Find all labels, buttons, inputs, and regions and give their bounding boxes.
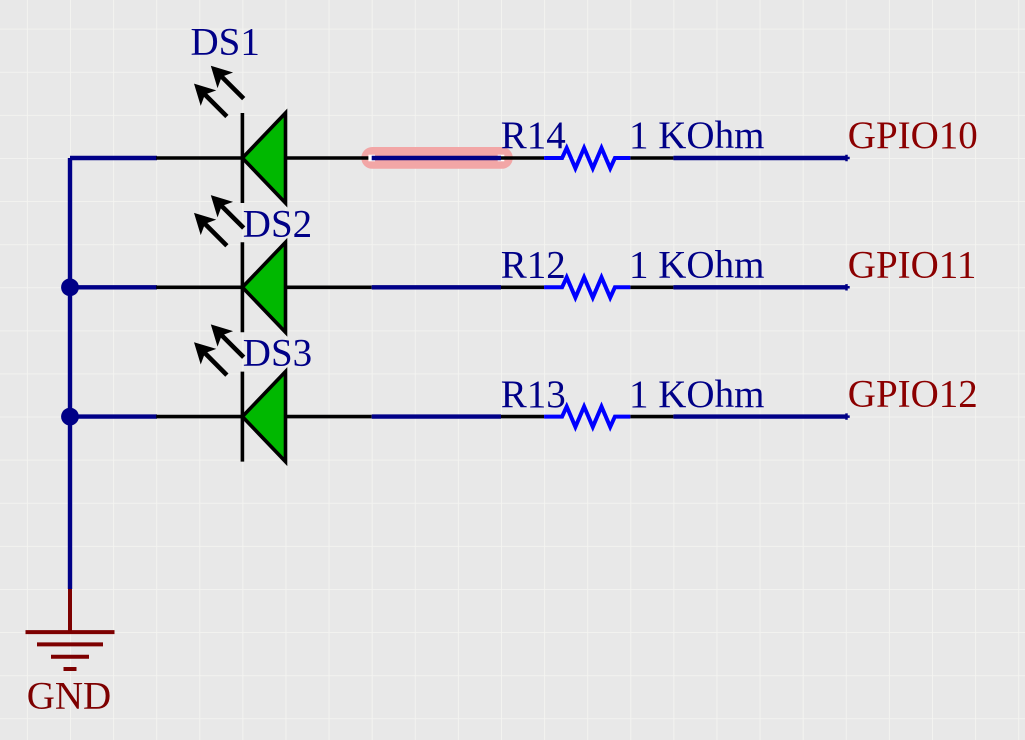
ground symbol [26,589,115,669]
LED DS1 [186,58,285,203]
svg-text:DS1: DS1 [191,21,260,64]
svg-text:1 KOhm: 1 KOhm [629,373,764,416]
resistor R13 [544,407,630,427]
highlighted selected wire glow (row 1) [361,147,513,169]
wire: row2 bus to DS2 [70,285,157,289]
resistor R14 [544,148,630,168]
resistor R14 pins [501,156,673,160]
resistor R12 [544,277,630,297]
LED DS2 pins [156,285,372,289]
svg-text:R14: R14 [501,114,566,157]
wire: DS2 to R12 [372,285,501,289]
svg-text:1 KOhm: 1 KOhm [629,244,764,287]
svg-text:DS2: DS2 [243,203,312,246]
resistor R13 pins [501,415,673,419]
wire: GND vertical bus [68,158,72,589]
wire: DS1 to R14 (selected) [372,156,501,160]
LED DS3 [186,317,285,462]
svg-text:GPIO12: GPIO12 [848,373,978,416]
LED DS3 pins [156,415,372,419]
svg-text:GPIO10: GPIO10 [848,114,978,157]
svg-text:DS3: DS3 [243,332,312,375]
svg-text:GND: GND [27,675,112,718]
svg-text:R13: R13 [501,373,566,416]
svg-text:R12: R12 [501,244,566,287]
wire: R14 to GPIO10 [673,156,845,160]
wire: R12 to GPIO11 [673,285,845,289]
wire: row3 bus to DS3 [70,414,157,418]
wire: DS3 to R13 [372,414,501,418]
wire: R13 to GPIO12 [673,414,845,418]
wire end marker row1 [843,155,849,161]
resistor R12 pins [501,285,673,289]
svg-text:GPIO11: GPIO11 [848,243,977,286]
svg-text:1 KOhm: 1 KOhm [629,114,764,157]
wire: row1 bus to DS1 [70,156,157,160]
node junction row2 [61,278,79,296]
wire end marker row3 [843,413,849,419]
node junction row3 [61,408,79,426]
wire end marker row2 [843,284,849,290]
LED DS1 pins [156,156,372,160]
LED DS2 [186,187,285,332]
wire vertex handles of selected wire [368,155,504,162]
